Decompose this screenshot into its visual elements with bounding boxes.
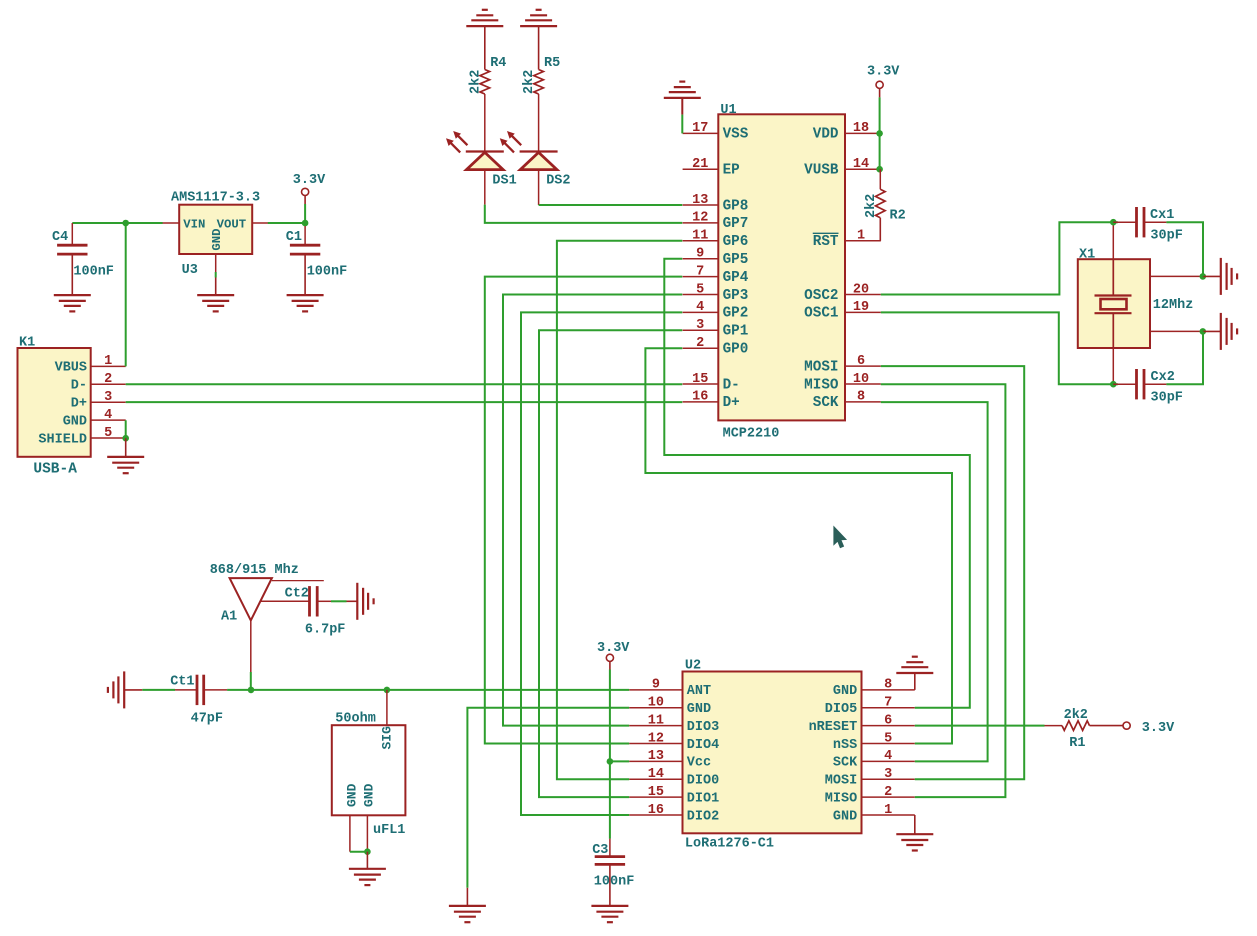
svg-text:13: 13 — [648, 749, 664, 764]
pin U1-18 VDD — [813, 121, 881, 143]
wire U3 GND — [215, 272, 217, 278]
svg-text:GP0: GP0 — [723, 342, 749, 358]
svg-text:Cx1: Cx1 — [1150, 208, 1174, 223]
svg-text:GND: GND — [687, 702, 711, 717]
ground symbol C3 — [591, 906, 628, 922]
wire GP3 to DIO3 — [503, 295, 682, 726]
pin Ct1 left — [175, 689, 197, 691]
junction uFL1 ground — [364, 848, 371, 855]
wire D+ from K1 to U1 — [126, 401, 683, 403]
value uFL1 50ohm — [335, 711, 376, 726]
svg-text:K1: K1 — [19, 336, 35, 351]
wire RF main line — [227, 689, 629, 691]
pin U1-14 VUSB — [804, 157, 881, 179]
pin U2-7 DIO5 — [825, 696, 915, 718]
wire OSC1 to crystal bottom — [881, 312, 1118, 384]
pin U2-1 GND — [833, 803, 915, 825]
pin X1 top — [1112, 224, 1114, 259]
wire 3.3V to VDD VUSB — [879, 97, 881, 169]
capacitor Ct2 — [310, 586, 318, 616]
wire GP5 to DIO5 — [664, 259, 970, 708]
ground symbol U2 GND10 — [449, 906, 486, 922]
pin K1-3 D+ — [71, 390, 126, 412]
wire nRESET to R1 — [915, 725, 1045, 727]
ground stub X1 bottom — [1203, 330, 1221, 332]
svg-text:D+: D+ — [723, 395, 740, 411]
svg-text:R2: R2 — [890, 208, 906, 223]
ground symbol U2 GND1 — [896, 834, 933, 850]
svg-text:Cx2: Cx2 — [1151, 370, 1175, 385]
svg-text:20: 20 — [853, 282, 869, 297]
value R2 2k2 — [864, 194, 879, 218]
pin U2-12 DIO4 — [629, 731, 719, 753]
wire GP7 from DS1 — [485, 205, 683, 223]
svg-text:MCP2210: MCP2210 — [723, 426, 780, 441]
svg-text:VDD: VDD — [813, 127, 839, 143]
wire U2 GND1 to ground — [914, 815, 916, 834]
wire Cx2 to ground node — [1166, 331, 1203, 384]
pin U1-20 OSC2 — [804, 282, 881, 304]
svg-text:DS2: DS2 — [546, 173, 570, 188]
ground stub Ct2 — [347, 600, 358, 602]
svg-text:50ohm: 50ohm — [335, 711, 376, 726]
junction uFL1 SIG node — [384, 687, 391, 694]
svg-text:GP4: GP4 — [723, 270, 749, 286]
pin U2-5 nSS — [833, 731, 915, 753]
pin R1 left — [1045, 725, 1063, 727]
svg-text:9: 9 — [696, 247, 704, 262]
wire GP8 from DS2 — [539, 204, 683, 206]
pin U2-3 MOSI — [825, 767, 915, 789]
pin Ct1 right — [204, 689, 227, 691]
reference X1 — [1079, 247, 1095, 262]
svg-text:MOSI: MOSI — [825, 774, 857, 789]
svg-text:AMS1117-3.3: AMS1117-3.3 — [171, 191, 260, 206]
svg-text:5: 5 — [696, 282, 704, 297]
pin C3 top — [609, 839, 611, 857]
power 3.3V above U1 — [867, 64, 900, 88]
wire Vcc tap — [610, 760, 629, 762]
pin U2-14 DIO0 — [629, 767, 719, 789]
svg-text:1: 1 — [104, 354, 112, 369]
value USB-A — [33, 462, 77, 478]
pin K1-1 VBUS — [55, 354, 126, 376]
value R1 2k2 — [1064, 708, 1088, 723]
reference C1 — [286, 230, 302, 245]
wire ground to R4 — [484, 26, 486, 69]
ground symbol Ct2 — [357, 583, 373, 620]
svg-text:21: 21 — [692, 157, 708, 172]
junction crystal bottom node — [1110, 381, 1117, 388]
pin U1-2 GP0 — [683, 336, 749, 358]
capacitor C1 — [290, 245, 320, 254]
power 3.3V top-left — [293, 173, 326, 195]
junction antenna node — [248, 687, 255, 694]
LED DS2 — [500, 131, 558, 170]
svg-text:2k2: 2k2 — [1064, 708, 1088, 723]
svg-text:C3: C3 — [592, 843, 608, 858]
svg-text:GND: GND — [63, 414, 87, 429]
wire GP0 to nSS — [645, 348, 952, 743]
value A1 868/915 Mhz — [210, 563, 299, 578]
pin R1 right — [1090, 725, 1124, 727]
reference R1 — [1069, 736, 1085, 751]
value LoRa1276-C1 — [685, 836, 774, 851]
power 3.3V above C3 — [597, 641, 630, 662]
svg-text:17: 17 — [692, 121, 708, 136]
svg-text:GND: GND — [344, 783, 359, 807]
svg-text:VUSB: VUSB — [804, 163, 839, 179]
wire VBUS vertical — [125, 223, 127, 366]
svg-text:nRESET: nRESET — [809, 720, 858, 735]
svg-text:U3: U3 — [182, 263, 198, 278]
svg-text:12: 12 — [692, 211, 708, 226]
svg-text:2: 2 — [884, 785, 892, 800]
svg-text:U2: U2 — [685, 659, 701, 674]
svg-text:SCK: SCK — [813, 395, 839, 411]
reference uFL1 — [373, 823, 405, 838]
IC U2 LoRa1276-C1 body — [683, 672, 862, 834]
svg-text:3: 3 — [104, 390, 112, 405]
pin Cx1 right — [1144, 221, 1166, 223]
svg-text:3.3V: 3.3V — [1142, 721, 1175, 736]
power 3.3V at R1 — [1123, 721, 1175, 736]
pin K1-2 D- — [71, 372, 126, 394]
svg-text:R5: R5 — [544, 56, 560, 71]
svg-text:GP3: GP3 — [723, 288, 749, 304]
svg-text:2k2: 2k2 — [468, 70, 483, 94]
ground symbol X1 bottom — [1221, 313, 1237, 350]
antenna A1 — [230, 578, 324, 672]
svg-text:R4: R4 — [490, 56, 506, 71]
svg-text:DIO0: DIO0 — [687, 774, 719, 789]
pin U1-10 MISO — [804, 372, 881, 394]
svg-text:12: 12 — [648, 731, 664, 746]
pin C3 bottom — [609, 864, 611, 906]
mouse cursor — [834, 527, 846, 548]
connector K1 USB-A body — [18, 348, 91, 457]
svg-text:D+: D+ — [71, 397, 87, 412]
reference U3 — [182, 263, 198, 278]
svg-text:15: 15 — [692, 372, 708, 387]
value R5 2k2 — [522, 70, 537, 94]
value AMS1117-3.3 — [171, 191, 260, 206]
wire MOSI U1 to U2 — [881, 366, 1024, 779]
svg-text:RST: RST — [813, 234, 839, 250]
junction X1 right-top ground node — [1200, 273, 1207, 280]
svg-text:C4: C4 — [52, 230, 68, 245]
pin uFL1 SIG — [380, 690, 395, 750]
pin U1-8 SCK — [813, 390, 881, 412]
ground stub uFL1 — [366, 852, 368, 869]
svg-text:OSC1: OSC1 — [804, 306, 838, 322]
pin K1-4 GND — [63, 408, 126, 430]
resistor R2 2k2 — [876, 189, 886, 218]
svg-text:3: 3 — [696, 318, 704, 333]
capacitor C4 — [57, 245, 87, 254]
svg-text:VSS: VSS — [723, 127, 749, 143]
pin U1-9 GP5 — [683, 247, 749, 269]
wire VSS ground stub — [681, 98, 683, 115]
ground symbol above U1 VSS — [664, 82, 701, 98]
wire D- from K1 to U1 — [126, 383, 683, 385]
resistor R1 2k2 — [1062, 721, 1090, 731]
power stub 3.3V C3 — [609, 661, 611, 669]
svg-text:12Mhz: 12Mhz — [1153, 298, 1194, 313]
crystal X1 symbol — [1095, 259, 1132, 348]
reference U2 — [685, 659, 701, 674]
pin U3 VOUT — [217, 217, 268, 231]
wire SCK U1 to U2 — [881, 402, 988, 761]
svg-text:Vcc: Vcc — [687, 756, 711, 771]
svg-text:Ct1: Ct1 — [170, 675, 194, 690]
svg-text:868/915 Mhz: 868/915 Mhz — [210, 563, 299, 578]
svg-text:18: 18 — [853, 121, 869, 136]
pin U1-15 D- — [683, 372, 740, 394]
reference A1 — [221, 610, 237, 625]
svg-text:GP7: GP7 — [723, 216, 749, 232]
pin Cx1 left — [1113, 221, 1136, 223]
pin uFL1 GND2 — [362, 783, 377, 851]
svg-text:U1: U1 — [720, 103, 736, 118]
reference R2 — [890, 208, 906, 223]
pin U1-13 GP8 — [683, 193, 749, 215]
pin U2-2 MISO — [825, 785, 915, 807]
pin U2-15 DIO1 — [629, 785, 719, 807]
ground stub RF left — [124, 689, 142, 691]
junction Vcc node — [607, 758, 614, 765]
wire R5 to DS2 — [538, 94, 540, 152]
svg-text:ANT: ANT — [687, 684, 711, 699]
value C4 100nF — [73, 265, 114, 280]
pin Cx2 right — [1144, 383, 1166, 385]
svg-text:14: 14 — [648, 767, 664, 782]
value Ct1 47pF — [191, 711, 223, 726]
reference DS2 — [546, 173, 570, 188]
pin U1-16 D+ — [683, 390, 740, 412]
pin U2-16 DIO2 — [629, 803, 719, 825]
svg-text:D-: D- — [723, 377, 740, 393]
svg-text:3.3V: 3.3V — [293, 173, 326, 188]
wire uFL1 grounds — [350, 851, 368, 853]
svg-text:5: 5 — [884, 731, 892, 746]
pin U1-11 GP6 — [683, 229, 749, 251]
resistor R5 2k2 — [534, 70, 544, 95]
pin U2-13 Vcc — [629, 749, 711, 771]
pin U1-6 MOSI — [804, 354, 881, 376]
svg-text:OSC2: OSC2 — [804, 288, 838, 304]
svg-text:EP: EP — [723, 163, 740, 179]
ground symbol RF left — [108, 671, 124, 708]
pin U1-19 OSC1 — [804, 300, 881, 322]
svg-text:2k2: 2k2 — [522, 70, 537, 94]
wire R4 to DS1 — [484, 94, 486, 152]
ground symbol uFL1 — [349, 869, 386, 885]
pin U1-5 GP3 — [683, 282, 749, 304]
pin U1-4 GP2 — [683, 300, 749, 322]
pin U1-1 RST — [813, 229, 881, 251]
pin X1 right-top — [1150, 275, 1203, 277]
connector uFL1 body — [332, 725, 406, 815]
svg-text:DIO5: DIO5 — [825, 702, 857, 717]
svg-text:3.3V: 3.3V — [597, 641, 630, 656]
ground symbol U3 — [197, 295, 234, 311]
reference Ct2 — [285, 587, 309, 602]
svg-text:SCK: SCK — [833, 756, 858, 771]
wire C4 to U3 VIN — [72, 222, 162, 224]
svg-text:D-: D- — [71, 379, 87, 394]
svg-text:5: 5 — [104, 426, 112, 441]
svg-text:100nF: 100nF — [73, 265, 114, 280]
reference C3 — [592, 843, 608, 858]
svg-text:6.7pF: 6.7pF — [305, 622, 346, 637]
pin U1-7 GP4 — [683, 264, 749, 286]
svg-text:4: 4 — [884, 749, 892, 764]
svg-text:47pF: 47pF — [191, 711, 223, 726]
reference K1 — [19, 336, 35, 351]
ground symbol K1 — [107, 457, 144, 473]
wire U3 VOUT to 3.3V node — [268, 222, 305, 224]
svg-text:19: 19 — [853, 300, 869, 315]
ground symbol C1 — [287, 295, 324, 311]
svg-text:11: 11 — [648, 713, 664, 728]
svg-text:13: 13 — [692, 193, 708, 208]
svg-text:8: 8 — [884, 678, 892, 693]
svg-text:3.3V: 3.3V — [867, 64, 900, 79]
wire GP1 to DIO1 — [539, 330, 682, 797]
pin U1-21 EP — [683, 157, 740, 179]
svg-text:1: 1 — [884, 803, 892, 818]
junction crystal top node — [1110, 219, 1117, 226]
svg-text:8: 8 — [857, 390, 865, 405]
junction X1 right-bottom ground node — [1200, 328, 1207, 335]
svg-text:MISO: MISO — [825, 791, 857, 806]
ground symbol above R5 — [520, 10, 557, 26]
svg-text:DIO4: DIO4 — [687, 738, 719, 753]
value MCP2210 — [723, 426, 780, 441]
pin U1-17 VSS — [683, 121, 749, 143]
reference Cx2 — [1151, 370, 1175, 385]
svg-text:2k2: 2k2 — [864, 194, 879, 218]
reference Cx1 — [1150, 208, 1174, 223]
power stub 3.3V U1 — [879, 88, 881, 97]
pin U3 GND — [210, 228, 224, 272]
svg-text:6: 6 — [857, 354, 865, 369]
svg-text:1: 1 — [857, 229, 865, 244]
crystal X1 body — [1078, 259, 1150, 348]
capacitor Cx1 — [1137, 207, 1145, 237]
svg-text:7: 7 — [884, 696, 892, 711]
capacitor Ct1 — [197, 675, 204, 705]
svg-text:7: 7 — [696, 264, 704, 279]
pin X1 bottom — [1112, 348, 1114, 383]
svg-text:GP8: GP8 — [723, 198, 749, 214]
capacitor Cx2 — [1137, 369, 1145, 399]
reference R5 — [544, 56, 560, 71]
svg-text:C1: C1 — [286, 230, 302, 245]
svg-text:15: 15 — [648, 785, 664, 800]
regulator U3 AMS1117-3.3 body — [179, 205, 252, 254]
svg-text:DIO1: DIO1 — [687, 791, 719, 806]
value Ct2 6.7pF — [305, 622, 346, 637]
wire GP6 to DIO0 — [557, 241, 682, 780]
value C3 100nF — [594, 875, 635, 890]
svg-text:Ct2: Ct2 — [285, 587, 309, 602]
wire 3.3V to node — [304, 204, 306, 226]
pin C4 bottom — [71, 254, 73, 295]
capacitor C3 — [595, 857, 625, 865]
svg-text:10: 10 — [648, 696, 664, 711]
pin K1 ground stub — [125, 438, 127, 457]
wire Ct2 to ground — [331, 600, 347, 602]
svg-text:MISO: MISO — [804, 377, 839, 393]
svg-text:GND: GND — [833, 809, 857, 824]
svg-text:DIO3: DIO3 — [687, 720, 719, 735]
value C1 100nF — [307, 265, 348, 280]
pin U2-4 SCK — [833, 749, 915, 771]
pin K1-5 SHIELD — [38, 426, 125, 448]
svg-text:30pF: 30pF — [1151, 391, 1183, 406]
svg-text:GP6: GP6 — [723, 234, 749, 250]
wire K1 GND to shield — [125, 420, 127, 438]
svg-text:VBUS: VBUS — [55, 361, 87, 376]
pin U2-6 nRESET — [809, 713, 915, 735]
svg-text:MOSI: MOSI — [804, 359, 838, 375]
svg-text:11: 11 — [692, 229, 708, 244]
svg-text:GND: GND — [362, 783, 377, 807]
junction VUSB — [876, 166, 883, 173]
value X1 12Mhz — [1153, 298, 1194, 313]
pin U2-8 GND — [833, 678, 915, 700]
pin uFL1 GND1 — [344, 783, 359, 851]
wire antenna to RF node — [250, 672, 252, 690]
wire VSS — [681, 115, 683, 134]
ground symbol X1 top — [1221, 258, 1237, 295]
wire GP4 to DIO4 — [485, 277, 683, 744]
svg-text:nSS: nSS — [833, 738, 857, 753]
svg-text:DS1: DS1 — [492, 173, 516, 188]
ground symbol above R4 — [466, 10, 503, 26]
wire 3.3V to Vcc and C3 — [609, 670, 611, 839]
wire OSC2 to crystal top — [881, 222, 1118, 294]
svg-text:6: 6 — [884, 713, 892, 728]
svg-text:2: 2 — [696, 336, 704, 351]
value Cx2 30pF — [1151, 391, 1183, 406]
svg-text:9: 9 — [652, 678, 660, 693]
value R4 2k2 — [468, 70, 483, 94]
svg-text:4: 4 — [696, 300, 704, 315]
pin Ct2 right — [317, 600, 331, 602]
LED DS1 — [446, 131, 504, 170]
wire U2 GND8 to ground — [914, 673, 916, 690]
pin Cx2 left — [1113, 383, 1136, 385]
svg-text:R1: R1 — [1069, 736, 1085, 751]
svg-text:10: 10 — [853, 372, 869, 387]
svg-text:SHIELD: SHIELD — [38, 432, 87, 447]
svg-text:DIO2: DIO2 — [687, 809, 719, 824]
svg-text:16: 16 — [692, 390, 708, 405]
reference C4 — [52, 230, 68, 245]
pin R2 top — [879, 169, 881, 189]
reference DS1 — [492, 173, 516, 188]
reference Ct1 — [170, 675, 194, 690]
svg-text:3: 3 — [884, 767, 892, 782]
junction 3.3V C1 node — [302, 220, 309, 227]
pin C1 top — [304, 226, 306, 245]
svg-text:X1: X1 — [1079, 247, 1095, 262]
junction VBUS tap — [122, 220, 129, 227]
power stub 3.3V top-left — [304, 196, 306, 205]
